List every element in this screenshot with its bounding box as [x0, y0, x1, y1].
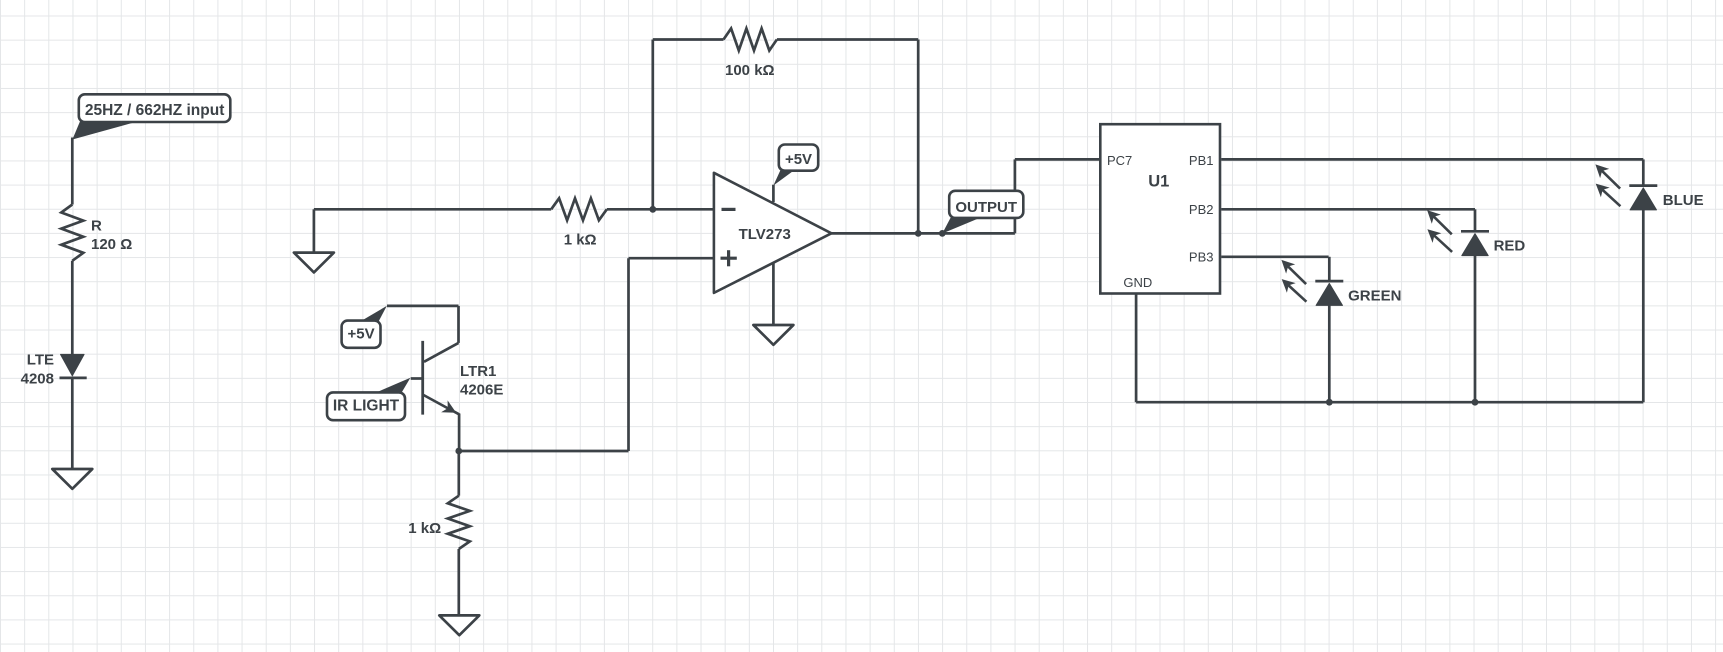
svg-text:LTR1: LTR1: [460, 363, 496, 380]
svg-text:R: R: [91, 218, 102, 235]
svg-text:4206E: 4206E: [460, 381, 503, 398]
svg-text:PC7: PC7: [1107, 153, 1132, 168]
svg-text:GND: GND: [1123, 275, 1152, 290]
svg-text:+5V: +5V: [348, 325, 375, 342]
svg-text:120 Ω: 120 Ω: [91, 236, 132, 253]
svg-text:OUTPUT: OUTPUT: [955, 199, 1017, 216]
svg-text:RED: RED: [1494, 238, 1526, 255]
svg-text:PB3: PB3: [1189, 250, 1214, 265]
svg-text:+5V: +5V: [785, 151, 812, 168]
svg-text:1 kΩ: 1 kΩ: [564, 232, 597, 249]
svg-text:GREEN: GREEN: [1348, 287, 1401, 304]
svg-text:25HZ / 662HZ input: 25HZ / 662HZ input: [85, 102, 225, 119]
svg-text:U1: U1: [1148, 173, 1169, 191]
svg-text:PB1: PB1: [1189, 153, 1214, 168]
svg-text:TLV273: TLV273: [739, 226, 791, 243]
svg-text:PB2: PB2: [1189, 202, 1214, 217]
svg-text:BLUE: BLUE: [1663, 192, 1704, 209]
svg-text:100 kΩ: 100 kΩ: [725, 62, 775, 79]
svg-text:1 kΩ: 1 kΩ: [408, 520, 441, 537]
svg-text:LTE: LTE: [27, 352, 54, 369]
svg-text:4208: 4208: [21, 371, 54, 388]
svg-text:IR LIGHT: IR LIGHT: [333, 398, 400, 415]
